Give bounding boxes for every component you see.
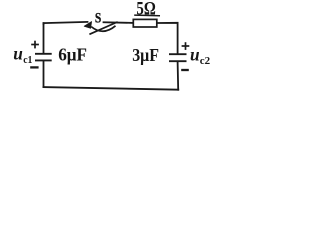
- wire bottom: [44, 87, 179, 90]
- svg-text:u: u: [190, 45, 200, 65]
- resistor R 5ohm box: [133, 19, 157, 27]
- wire switch to resistor: [104, 21, 133, 24]
- svg-text:S: S: [95, 10, 101, 26]
- wire left vertical upper: [43, 23, 45, 53]
- label 5Ω: [134, 0, 160, 19]
- wire top-left segment: [44, 22, 88, 24]
- wire resistor to top-right corner and down: [158, 23, 178, 54]
- svg-text:u: u: [13, 44, 23, 64]
- label - of C1: [30, 66, 38, 68]
- capacitor C1 (6uF) plates: [35, 54, 52, 61]
- svg-text:3μF: 3μF: [132, 45, 159, 65]
- label u_c1: [13, 44, 32, 66]
- svg-text:6μF: 6μF: [58, 44, 87, 64]
- wire right vertical lower: [177, 62, 180, 90]
- switch S: [84, 10, 117, 34]
- label + of C1: [31, 41, 39, 49]
- wire left vertical lower: [43, 61, 45, 87]
- label u_c2: [190, 45, 211, 67]
- svg-text:c2: c2: [200, 55, 211, 67]
- label + of C2: [182, 42, 190, 50]
- svg-text:5Ω: 5Ω: [136, 0, 155, 19]
- label - of C2: [181, 69, 189, 71]
- capacitor C2 (3uF) plates: [169, 54, 187, 61]
- svg-text:c1: c1: [23, 54, 32, 66]
